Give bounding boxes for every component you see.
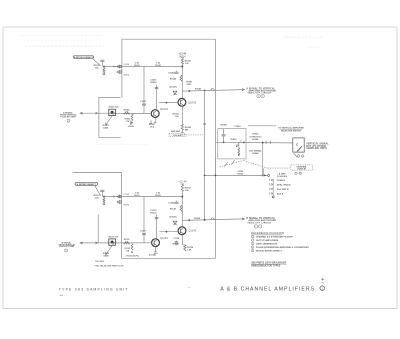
wire from B INTERCONNECT flag to input node xyxy=(95,186,101,196)
svg-text:R1133: R1133 xyxy=(150,212,157,214)
wire left vertical rail x=122 (B) xyxy=(121,173,123,259)
svg-text:HORIZ IN: HORIZ IN xyxy=(298,169,307,171)
svg-text:Q1024: Q1024 xyxy=(160,107,169,111)
wire A input rail xyxy=(105,66,183,68)
svg-text:4: 4 xyxy=(302,156,303,158)
svg-text:* SEL VALUE SEE PARTS LIST: * SEL VALUE SEE PARTS LIST xyxy=(94,265,124,268)
svg-text:OUT SIGNAL: OUT SIGNAL xyxy=(249,149,263,152)
terminal circle A GND xyxy=(268,174,270,176)
wire left vertical rail x=122 (A) xyxy=(121,39,123,97)
svg-text:3: 3 xyxy=(298,156,299,158)
svg-text:TYPE 3S2 SAMPLING UNIT: TYPE 3S2 SAMPLING UNIT xyxy=(59,288,129,292)
svg-text:4: 4 xyxy=(252,247,253,249)
resistor R1045 on supply column xyxy=(180,75,182,81)
svg-text:LEVEL: LEVEL xyxy=(252,139,259,141)
reference diagram item 1 xyxy=(251,235,254,238)
dashed gang line from 1160 box to rail xyxy=(186,134,204,136)
wire x=144 vertical branch (A) xyxy=(143,67,145,114)
wire B base row xyxy=(97,242,152,244)
connector contact pair at A interconnect (pins) xyxy=(113,65,115,67)
svg-text:SEMICONDUCTOR TYPES: SEMICONDUCTOR TYPES xyxy=(251,266,281,268)
svg-text:R1064: R1064 xyxy=(252,152,259,155)
svg-text:TO VERTICAL AMPLIFIER: TO VERTICAL AMPLIFIER xyxy=(278,127,304,130)
external horiz dashed label box xyxy=(291,165,313,170)
wire B top bracket arm xyxy=(73,172,122,174)
svg-text:1: 1 xyxy=(255,226,256,228)
faint bleed-through ghost text rows near top of sheet xyxy=(20,35,103,37)
arrow A SIGNAL FROM vertical plug-in xyxy=(80,112,96,114)
wire long vertical rail x=215.5 xyxy=(215,39,217,258)
svg-text:SEE PARTS LIST FOR EARLIER: SEE PARTS LIST FOR EARLIER xyxy=(251,261,286,264)
transistor Q1143 xyxy=(178,227,186,235)
svg-text:C1043: C1043 xyxy=(168,72,175,75)
switch contact CHAN A xyxy=(268,179,271,182)
svg-text:DUAL-TRACE: DUAL-TRACE xyxy=(277,183,291,186)
svg-text:CHANNEL A & B TRIGGER PICKOFF: CHANNEL A & B TRIGGER PICKOFF xyxy=(256,235,294,238)
svg-text:SAMPLING UNIT): SAMPLING UNIT) xyxy=(306,147,327,150)
transistor Q1024 xyxy=(151,110,159,118)
faint ghost dashes mid-left xyxy=(96,143,148,145)
wire ground row xyxy=(205,174,268,176)
wire supply column B down to Q1143 xyxy=(181,191,183,226)
reference circle under B SIGNAL FROM xyxy=(65,249,68,252)
transistor Q1124 xyxy=(152,239,160,247)
wire C1133 branch above Q1124 xyxy=(156,215,158,239)
component below base row right xyxy=(150,120,152,123)
svg-text:6: 6 xyxy=(300,173,301,175)
wire x=144 vertical branch (B) xyxy=(143,197,145,243)
wire top boundary of A channel xyxy=(122,38,216,40)
svg-text:R1052: R1052 xyxy=(195,89,202,91)
wire supply column A down to Q1043 xyxy=(181,64,183,98)
reference circles under external horiz xyxy=(295,172,298,175)
switch contact column for trace selection xyxy=(272,179,274,196)
svg-text:SWP MAG: SWP MAG xyxy=(171,130,181,133)
resistor R1123 to ground xyxy=(131,242,133,245)
svg-text:R1031: R1031 xyxy=(128,126,135,128)
wire stub below external horiz xyxy=(263,168,265,175)
resistor R1012 to ground below input node xyxy=(103,67,105,69)
svg-text:RL1C: RL1C xyxy=(134,195,140,197)
capacitor C1043 on supply column xyxy=(174,71,178,73)
text TO VERTICAL AMPLIFIER with wire xyxy=(248,125,276,127)
svg-text:3: 3 xyxy=(252,243,253,245)
terminal circle at bottom of contact column xyxy=(272,196,274,198)
svg-text:2: 2 xyxy=(260,226,261,228)
reference circles under A SIGNAL TO xyxy=(257,94,260,97)
svg-text:R1152: R1152 xyxy=(194,218,201,220)
svg-text:GAIN: GAIN xyxy=(103,127,109,130)
potentiometer R1121 GAIN box xyxy=(109,239,116,245)
switch contact SGL SWP B xyxy=(268,188,271,191)
svg-text:(D1047): (D1047) xyxy=(169,85,177,88)
capacitor C1061 inside box xyxy=(223,129,225,135)
svg-text:308: 308 xyxy=(321,283,324,285)
svg-text:RL1B: RL1B xyxy=(155,65,161,67)
svg-text:GAIN: GAIN xyxy=(103,255,109,258)
svg-text:5: 5 xyxy=(296,173,297,175)
wire bottom boundary of B channel xyxy=(122,257,216,259)
svg-text:AUX A: AUX A xyxy=(277,192,284,195)
reference diagram item 5 xyxy=(251,249,254,252)
svg-text:PULSE DIFFERENTIAL AMPLIFIER &: PULSE DIFFERENTIAL AMPLIFIER & CONVERTER… xyxy=(256,246,309,249)
svg-text:R1060: R1060 xyxy=(221,125,228,127)
output amplifier enclosure box xyxy=(218,129,246,159)
svg-text:(D1147): (D1147) xyxy=(169,215,176,218)
switch wafer triangle on rail xyxy=(204,124,206,126)
connector pair marks on output row xyxy=(265,141,268,144)
wire B output row xyxy=(182,219,244,221)
potentiometer R1021 GAIN box xyxy=(109,109,116,115)
node B input junction xyxy=(103,196,105,198)
reference circles at signal out switch xyxy=(297,155,300,158)
svg-text:B INTERCONNECT: B INTERCONNECT xyxy=(77,184,97,186)
svg-text:R1060: R1060 xyxy=(230,139,237,141)
resistor R1031 decoupling mid xyxy=(130,120,132,124)
svg-text:A INTERCONNECT: A INTERCONNECT xyxy=(74,56,94,59)
wire Q1124 emitter xyxy=(155,247,157,252)
wire long vertical rail x=204.6 xyxy=(204,91,206,220)
svg-text:R1145: R1145 xyxy=(170,208,177,211)
wire link Q1124 collector to Q1143 base xyxy=(160,231,179,233)
flag label B INTERCONNECT xyxy=(75,182,98,185)
reference diagram item 4 xyxy=(251,246,254,249)
svg-text:REFERENCE DIAGRAMS: REFERENCE DIAGRAMS xyxy=(251,231,284,235)
capacitor C1127 on B branch xyxy=(142,233,146,235)
svg-text:5: 5 xyxy=(252,250,253,252)
wire A base row (from delay line to Q1024 base) xyxy=(97,112,152,114)
resistor R1145 on B supply column xyxy=(180,205,182,211)
svg-text:PLUG-IN CONN: PLUG-IN CONN xyxy=(60,117,76,119)
svg-text:2: 2 xyxy=(262,96,263,98)
arrow B SIGNAL FROM vertical plug-in xyxy=(80,242,96,244)
wire link Q1024 collector to Q1043 base xyxy=(159,102,178,104)
svg-text:SGL SWP B: SGL SWP B xyxy=(277,189,289,191)
reference circles under B SIGNAL TO xyxy=(254,225,257,228)
svg-text:GATE GENERATORS: GATE GENERATORS xyxy=(256,242,278,245)
svg-text:(CHASSIS): (CHASSIS) xyxy=(277,175,288,178)
wire from switch box down to ref circles xyxy=(294,153,298,157)
svg-text:R1121 10k: R1121 10k xyxy=(109,236,120,238)
resistor R1143 xyxy=(181,185,183,192)
capacitor C1011 at A input xyxy=(100,59,104,61)
capacitor C1111 at B input xyxy=(100,189,104,191)
resistor R1043 xyxy=(181,58,183,64)
svg-text:C1136: C1136 xyxy=(173,238,178,240)
resistor R1112 to ground below B input node xyxy=(103,197,105,199)
svg-text:1160 SER: 1160 SER xyxy=(173,135,182,137)
svg-text:(C1124): (C1124) xyxy=(149,254,156,257)
svg-text:C1027: C1027 xyxy=(140,101,147,103)
capacitor C1136 to ground xyxy=(175,241,177,242)
wire Q1043 emitter with resistor R1038 xyxy=(181,106,183,124)
svg-text:Q1124: Q1124 xyxy=(160,236,168,240)
resistor R1122 inline xyxy=(124,242,130,244)
svg-text:RL1A: RL1A xyxy=(134,64,140,67)
capacitor C1143 on B supply column xyxy=(174,201,178,203)
diode D1047 xyxy=(173,91,177,94)
dashed gang line vertical xyxy=(215,159,217,177)
resistor R1022 inline xyxy=(124,112,130,114)
svg-text:L1014: L1014 xyxy=(124,63,130,66)
wire from A INTERCONNECT flag to input node xyxy=(93,59,101,66)
svg-text:2: 2 xyxy=(252,240,253,242)
svg-text:1: 1 xyxy=(66,250,67,252)
svg-text:C1060: C1060 xyxy=(234,126,241,128)
node A input junction xyxy=(103,66,105,68)
switch gang dashes along box bottom xyxy=(220,160,244,167)
wire B input rail xyxy=(105,196,183,198)
svg-text:+12.4V: +12.4V xyxy=(178,179,187,183)
svg-text:R1016: R1016 xyxy=(124,74,130,76)
svg-text:OUTPUT AMPLIFIERS: OUTPUT AMPLIFIERS xyxy=(256,239,279,242)
transistor Q1043 xyxy=(178,98,186,106)
diode D1147 xyxy=(173,221,177,224)
svg-text:1160 SER: 1160 SER xyxy=(95,261,105,263)
flag label A INTERCONNECT xyxy=(73,56,93,59)
dashed gang line to external horiz xyxy=(244,161,268,169)
reference diagram item 2 xyxy=(251,239,254,242)
svg-text:R1021 10k: R1021 10k xyxy=(109,107,120,109)
svg-text:1: 1 xyxy=(252,236,253,238)
wire output row through box xyxy=(216,141,293,144)
svg-text:DIGITAL INTERCONNECT: DIGITAL INTERCONNECT xyxy=(256,249,283,252)
connector contact pair at B interconnect xyxy=(113,195,115,197)
wire C1033 branch above Q1024 xyxy=(156,85,158,110)
svg-text:1: 1 xyxy=(258,96,259,98)
svg-text:TAKE-OFF CIRCUIT: TAKE-OFF CIRCUIT xyxy=(247,221,272,224)
svg-text:R1134: R1134 xyxy=(173,242,180,245)
vertical signal out switch box xyxy=(293,138,304,152)
resistor R1023 to ground xyxy=(131,113,133,116)
wire Q1143 emitter with resistor R1136 xyxy=(181,235,183,245)
wire A output row to vertical amplifier xyxy=(182,90,244,92)
registered stamp above title corner xyxy=(321,278,324,281)
svg-text:PLUG-IN CONN: PLUG-IN CONN xyxy=(59,246,75,248)
wire feedback bracket A xyxy=(99,98,121,138)
svg-text:RL1D: RL1D xyxy=(155,195,161,197)
switch contact AUX A xyxy=(268,192,271,195)
wire output coupling down to ground row xyxy=(262,143,264,176)
svg-text:C1127: C1127 xyxy=(140,231,147,233)
svg-text:+: + xyxy=(188,286,190,290)
svg-text:CHAN A: CHAN A xyxy=(277,179,286,182)
capacitor C1027 on branch xyxy=(142,103,146,105)
wire Q1024 emitter xyxy=(154,118,156,123)
svg-text:Q1143: Q1143 xyxy=(188,229,196,233)
reference circle 1 under A SIGNAL FROM xyxy=(67,119,70,122)
svg-text:R1033: R1033 xyxy=(150,82,157,84)
svg-text:TAKE-OFF CIRCUIT: TAKE-OFF CIRCUIT xyxy=(247,92,272,95)
svg-text:C1143: C1143 xyxy=(168,202,175,205)
svg-text:R1131 (DCPL): R1131 (DCPL) xyxy=(126,256,139,258)
svg-text:R1116: R1116 xyxy=(124,204,129,206)
svg-text:A & B CHANNEL AMPLIFIERS: A & B CHANNEL AMPLIFIERS xyxy=(220,287,315,293)
wire B-from bracket vertical xyxy=(97,215,99,243)
svg-text:1: 1 xyxy=(68,120,69,122)
svg-text:Q1043: Q1043 xyxy=(188,101,197,105)
switch contact DUAL-TRACE xyxy=(268,183,271,186)
svg-text:R1045: R1045 xyxy=(170,78,177,81)
svg-text:SELECTOR SWITCH: SELECTOR SWITCH xyxy=(281,131,302,133)
reference diagram item 3 xyxy=(251,242,254,245)
circled figure number after title xyxy=(320,286,325,291)
